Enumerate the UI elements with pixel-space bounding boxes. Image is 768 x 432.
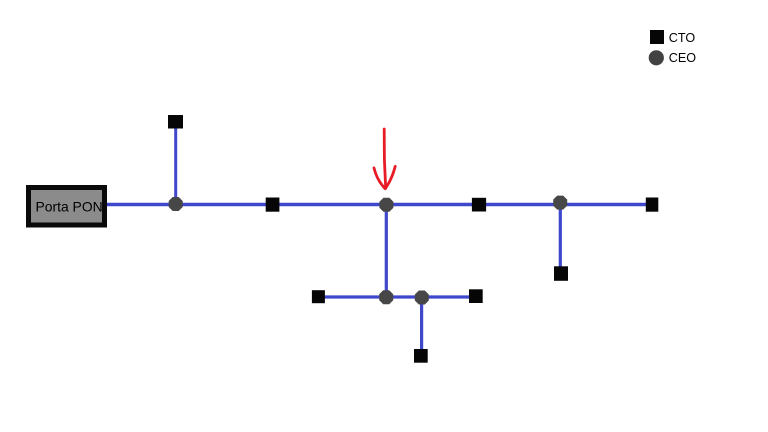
- CEO C2 (center node on trunk, arrow target): [379, 198, 393, 212]
- CTO S6 (square at left end of lower branch): [312, 290, 325, 303]
- CTO S3 (square on trunk): [472, 198, 486, 212]
- CTO S8 (square at right end of lower branch): [469, 289, 483, 303]
- wire: main horizontal trunk from Porta PON to right CTO: [107, 203, 651, 207]
- svg-text:CEO: CEO: [669, 51, 696, 65]
- CTO S5 (square at right end of trunk): [646, 198, 659, 212]
- CEO C4 (left node on lower branch): [379, 290, 393, 304]
- CTO S1 (top-left square): [168, 115, 183, 129]
- svg-text:CTO: CTO: [669, 31, 696, 45]
- legend CEO swatch (dark gray circle): [649, 50, 664, 65]
- Porta PON box: [29, 188, 105, 226]
- CTO S7 (square at bottom of C5 drop): [414, 349, 428, 363]
- wire: lower horizontal branch: [318, 295, 476, 298]
- legend CTO swatch (black square): [650, 30, 664, 44]
- CEO C5 (right node on lower branch): [415, 291, 429, 305]
- svg-text:Porta PON: Porta PON: [36, 199, 103, 215]
- wire: vertical drop from CEO C5 down to CTO S7: [420, 297, 423, 355]
- CEO C3 (right node on trunk): [553, 196, 567, 210]
- wire: vertical drop from CTO S1 down to CEO C1: [174, 121, 177, 205]
- CEO C1 (node on trunk below S1): [169, 197, 183, 211]
- wire: vertical drop from center CEO C2 down to lower branch: [385, 205, 388, 298]
- CTO S2 (square on trunk): [266, 198, 280, 212]
- wire: vertical drop from CEO C3 down to CTO S4: [559, 203, 562, 272]
- CTO S4 (square below C3): [554, 266, 568, 281]
- red annotation arrow pointing at CEO C2: [374, 129, 395, 189]
